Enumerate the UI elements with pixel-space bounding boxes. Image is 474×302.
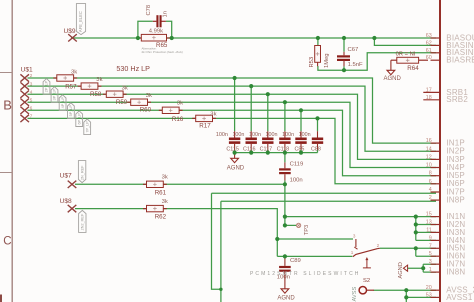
svg-text:7: 7 — [30, 114, 33, 119]
svg-text:AGND: AGND — [384, 76, 402, 82]
svg-text:5P_LP: 5P_LP — [69, 105, 73, 117]
svg-text:0R = NI: 0R = NI — [396, 52, 416, 58]
svg-text:C85: C85 — [295, 146, 305, 152]
svg-text:13: 13 — [426, 220, 432, 226]
svg-text:C89: C89 — [290, 258, 301, 264]
svg-text:AFE_ELEC: AFE_ELEC — [78, 11, 83, 32]
svg-text:3: 3 — [353, 234, 356, 239]
svg-text:6: 6 — [429, 179, 432, 185]
svg-text:63: 63 — [426, 33, 432, 39]
svg-text:IN8P: IN8P — [446, 196, 465, 205]
svg-text:R57: R57 — [65, 83, 77, 90]
svg-text:C115: C115 — [226, 146, 239, 152]
svg-text:3: 3 — [30, 81, 33, 86]
svg-text:C78: C78 — [146, 5, 152, 16]
svg-text:R16: R16 — [172, 116, 184, 123]
svg-text:3k: 3k — [71, 69, 77, 75]
svg-text:2N_REF: 2N_REF — [80, 165, 84, 180]
svg-text:3k: 3k — [162, 199, 168, 205]
svg-text:C117: C117 — [260, 146, 273, 152]
svg-text:3P_LP: 3P_LP — [53, 88, 57, 100]
svg-text:C119: C119 — [290, 161, 304, 167]
svg-text:4P_LP: 4P_LP — [61, 97, 65, 109]
svg-text:17: 17 — [426, 87, 432, 93]
svg-text:1n: 1n — [163, 11, 169, 17]
svg-text:7: 7 — [429, 243, 432, 249]
svg-text:5: 5 — [429, 251, 432, 257]
svg-text:100n: 100n — [266, 132, 278, 138]
svg-text:C88: C88 — [311, 146, 321, 152]
svg-text:100n: 100n — [282, 132, 294, 138]
svg-text:R53: R53 — [309, 57, 315, 68]
svg-text:2: 2 — [30, 73, 33, 78]
svg-text:IN8N: IN8N — [446, 268, 465, 277]
svg-text:1Meg: 1Meg — [324, 53, 330, 68]
svg-text:R61: R61 — [155, 189, 167, 196]
svg-text:60: 60 — [426, 55, 432, 61]
svg-text:U$8: U$8 — [60, 198, 72, 205]
svg-text:1: 1 — [429, 267, 432, 273]
svg-text:4: 4 — [429, 187, 432, 193]
svg-text:4: 4 — [30, 89, 33, 94]
svg-text:9: 9 — [429, 235, 432, 241]
svg-text:18: 18 — [426, 95, 432, 101]
svg-text:2P_LP: 2P_LP — [45, 80, 49, 92]
svg-text:R17: R17 — [199, 123, 211, 130]
svg-text:S2: S2 — [363, 278, 370, 284]
svg-text:15: 15 — [426, 212, 432, 218]
svg-text:TP3: TP3 — [304, 225, 310, 235]
svg-text:SRB2: SRB2 — [446, 95, 468, 104]
svg-text:U$9: U$9 — [64, 28, 76, 35]
svg-text:AGND: AGND — [277, 296, 295, 302]
svg-text:AGND: AGND — [227, 166, 245, 172]
svg-text:1: 1 — [351, 250, 354, 255]
svg-text:6: 6 — [30, 106, 33, 111]
svg-text:R60: R60 — [140, 107, 152, 114]
svg-text:61: 61 — [426, 48, 432, 54]
svg-text:3k: 3k — [177, 101, 183, 107]
svg-text:R65: R65 — [156, 42, 168, 49]
svg-text:R64: R64 — [407, 65, 419, 72]
svg-text:5: 5 — [30, 97, 33, 102]
svg-text:2N2_REF: 2N2_REF — [81, 213, 85, 230]
svg-text:10: 10 — [426, 163, 432, 169]
svg-text:R62: R62 — [155, 214, 167, 221]
svg-text:100n: 100n — [216, 132, 228, 138]
svg-text:4.99k: 4.99k — [149, 29, 163, 35]
svg-text:12: 12 — [426, 154, 432, 160]
svg-text:62: 62 — [426, 40, 432, 46]
svg-text:BIASREF: BIASREF — [446, 56, 474, 65]
svg-text:14: 14 — [426, 146, 432, 152]
svg-text:C118: C118 — [277, 146, 290, 152]
svg-text:100n: 100n — [299, 132, 311, 138]
svg-text:2: 2 — [429, 195, 432, 201]
svg-text:100n: 100n — [290, 177, 303, 183]
svg-text:6P_LP: 6P_LP — [77, 113, 81, 125]
svg-text:53: 53 — [426, 292, 432, 298]
svg-text:C116: C116 — [243, 146, 256, 152]
svg-text:U$7: U$7 — [60, 172, 72, 179]
svg-text:3k: 3k — [122, 85, 128, 91]
svg-text:3k: 3k — [162, 175, 168, 181]
svg-text:R58: R58 — [90, 91, 102, 98]
svg-text:R59: R59 — [116, 99, 128, 106]
svg-text:530 Hz LP: 530 Hz LP — [116, 64, 150, 73]
svg-text:AVSS: AVSS — [352, 287, 358, 302]
svg-text:2: 2 — [377, 243, 380, 248]
svg-text:8: 8 — [429, 171, 432, 177]
svg-text:2k Ohm Protection (fault ~8uA): 2k Ohm Protection (fault ~8uA) — [142, 50, 183, 54]
svg-text:20: 20 — [426, 285, 432, 291]
svg-text:AGND: AGND — [398, 262, 404, 278]
svg-text:100n: 100n — [232, 132, 244, 138]
svg-text:16: 16 — [426, 138, 432, 144]
svg-text:AVSS1: AVSS1 — [446, 293, 473, 302]
svg-text:B: B — [3, 98, 12, 113]
svg-text:C: C — [3, 236, 11, 248]
svg-text:PCM12SMTR SLIDESWITCH: PCM12SMTR SLIDESWITCH — [250, 271, 361, 277]
svg-text:3k: 3k — [146, 93, 152, 99]
svg-text:1.5nF: 1.5nF — [348, 62, 363, 68]
svg-text:11: 11 — [426, 227, 432, 233]
svg-text:C67: C67 — [348, 47, 359, 53]
svg-text:3k: 3k — [210, 112, 216, 118]
svg-text:3: 3 — [429, 259, 432, 265]
svg-text:3k: 3k — [96, 77, 102, 83]
svg-text:100n: 100n — [249, 132, 261, 138]
svg-text:7P_LP: 7P_LP — [85, 121, 89, 133]
